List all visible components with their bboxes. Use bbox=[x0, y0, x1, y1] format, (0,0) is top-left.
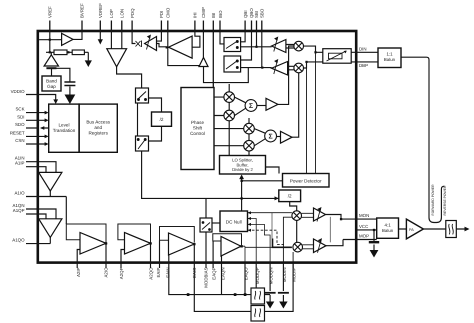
line to power detector left bbox=[206, 181, 283, 218]
pin to PSC top bbox=[212, 31, 214, 88]
svg-text:Shift: Shift bbox=[193, 126, 203, 131]
var amp arrows bbox=[147, 35, 322, 253]
var amp1 to mixer5 pair bbox=[286, 45, 294, 49]
svg-text:SBI: SBI bbox=[254, 11, 259, 18]
svg-text:A1QO: A1QO bbox=[12, 238, 25, 243]
mixer M4 phase quad bbox=[244, 140, 255, 151]
A1 amp Q input hooks bbox=[26, 209, 56, 219]
svg-text:IBO: IBO bbox=[218, 10, 223, 18]
switch SW1 blade and contacts bbox=[226, 41, 238, 49]
resistor R1 bbox=[54, 50, 67, 55]
mixer M5 feedback I bbox=[294, 41, 304, 51]
LO amp apex to switch A bbox=[117, 67, 142, 88]
CMO pin vertical and link to up-amp bbox=[168, 31, 200, 66]
svg-text:Control: Control bbox=[190, 131, 205, 136]
LOP LON to LO amp bbox=[111, 31, 121, 49]
DC null edge arrows bbox=[248, 211, 251, 232]
svg-text:VCC: VCC bbox=[359, 224, 368, 229]
mixer M1 phase quad bbox=[224, 92, 235, 103]
bandgap box link bbox=[51, 69, 53, 76]
bandgap cap branch bbox=[57, 68, 70, 95]
junction VREF resistor tap bbox=[49, 51, 51, 53]
junction EA Q amp output bbox=[240, 245, 242, 247]
mixer M3 phase quad bbox=[244, 123, 255, 134]
VREF buffer amp output to BVREF bbox=[73, 31, 82, 39]
VDREF down arrow bbox=[98, 39, 103, 44]
junction A2 Q amp output bbox=[149, 242, 151, 244]
band gap box bbox=[42, 76, 61, 91]
ferrite box1 bbox=[251, 288, 265, 304]
svg-text:EAQO: EAQO bbox=[244, 267, 249, 280]
svg-text:MOP: MOP bbox=[359, 234, 369, 239]
amplifier triangles bbox=[39, 33, 424, 252]
PDQ pin to det symbol bbox=[132, 31, 135, 44]
switch mid to DC null bbox=[212, 222, 220, 224]
CSN arrow bbox=[45, 142, 49, 146]
output amps to MON VCC MOP bbox=[326, 215, 377, 246]
DC null line1 to I mixer bbox=[248, 212, 292, 214]
svg-text:Balun: Balun bbox=[382, 228, 394, 233]
svg-text:LON: LON bbox=[120, 9, 125, 18]
svg-text:REVERSE POWER: REVERSE POWER bbox=[443, 185, 447, 216]
VCC decoupling cap bbox=[373, 230, 375, 251]
LO splitter buffer divide box bbox=[220, 156, 266, 175]
thin observation loop vertical bbox=[329, 217, 331, 243]
DC null line3 to MODQN pin bbox=[248, 224, 271, 262]
bandgap amp apex link bbox=[50, 52, 52, 55]
svg-text:SDO: SDO bbox=[15, 122, 25, 127]
EAIN external line bbox=[169, 263, 251, 295]
junction external filter node A bbox=[187, 293, 190, 296]
top pin stubs bbox=[50, 21, 262, 32]
CMIP pin to up-amp apex bbox=[202, 31, 204, 58]
A1QO output bbox=[26, 237, 50, 243]
switchbox2 out to var amp 2 bbox=[241, 31, 272, 68]
var amp feedback 1 (left) bbox=[272, 40, 286, 53]
output var amp I bbox=[314, 208, 326, 221]
svg-text:EAIO: EAIO bbox=[192, 267, 197, 278]
svg-text:Balun: Balun bbox=[384, 57, 396, 62]
amp6 out to mixer6 LO bbox=[292, 73, 299, 137]
pin to switchbox1 bbox=[220, 31, 224, 44]
svg-text:RESET: RESET bbox=[10, 130, 25, 135]
junction LO distribution node bbox=[241, 197, 243, 199]
svg-text:EAQP: EAQP bbox=[212, 267, 217, 279]
PSC outputs to quad mixers bbox=[214, 97, 244, 146]
MODQN bypass cap bbox=[269, 263, 271, 303]
svg-text:A2IO: A2IO bbox=[104, 267, 109, 278]
VREF net top-left bbox=[39, 31, 88, 52]
svg-text:Level: Level bbox=[59, 123, 70, 128]
svg-text:A2IP: A2IP bbox=[76, 267, 81, 277]
mixer5 branch down to power detector bbox=[315, 52, 317, 173]
cap plates bbox=[64, 82, 75, 86]
pin labels right bbox=[359, 46, 369, 238]
svg-text:IBI: IBI bbox=[211, 13, 216, 18]
DC null line2 to MODQP pin bbox=[248, 219, 257, 263]
amp4 output to EAQO pin and Q mixer bbox=[241, 246, 273, 262]
VREF buffer amp bbox=[62, 33, 73, 45]
gnd big below cap bbox=[65, 95, 76, 105]
attenuator to mixers diff lines bbox=[304, 46, 323, 68]
svg-text:Gap: Gap bbox=[47, 84, 56, 89]
junction EA I amp output bbox=[193, 243, 195, 245]
sigma2 to amp6 bbox=[277, 136, 281, 138]
resistor R2 bbox=[72, 50, 84, 55]
svg-text:Band: Band bbox=[46, 79, 57, 84]
gain arrow on output amp I bbox=[317, 208, 321, 222]
SCK arrow bbox=[45, 111, 49, 115]
svg-text:A1IP: A1IP bbox=[15, 161, 25, 166]
switch A to /2 to switch B bbox=[149, 98, 162, 141]
svg-text:CMO: CMO bbox=[166, 7, 171, 18]
svg-text:PDI: PDI bbox=[159, 11, 164, 18]
bandgap amp (up) bbox=[44, 55, 58, 66]
PA amp bbox=[406, 219, 423, 239]
IHI pin to big left amp input bbox=[192, 31, 200, 47]
svg-text:Translation: Translation bbox=[53, 128, 76, 133]
switchbox1 out up to pin bbox=[241, 31, 246, 42]
MODQN cap gnd bbox=[266, 302, 274, 309]
svg-text:PA: PA bbox=[409, 228, 414, 232]
var amp2 to mixer6 pair bbox=[288, 66, 294, 70]
svg-text:MON: MON bbox=[359, 213, 369, 218]
big left amp out to CMO vertical and small var amp bbox=[157, 44, 169, 48]
VDREF arrow line bbox=[99, 31, 101, 40]
DC null line4 dashed bbox=[248, 230, 285, 244]
svg-text:DIN: DIN bbox=[359, 46, 367, 51]
switch A to B direct line bbox=[137, 103, 139, 136]
MODIP pin line bbox=[292, 252, 294, 263]
LO splitter right to PD top bbox=[266, 167, 280, 174]
switch SW5 blade and contacts bbox=[202, 222, 210, 231]
gain arrow on PD var amp bbox=[147, 35, 151, 49]
ferrite1 to MODQN cap node bbox=[265, 263, 294, 312]
left pins SPI bbox=[26, 95, 56, 145]
switch B bbox=[136, 136, 149, 151]
pin hook to switchbox2 bbox=[241, 31, 252, 60]
A1 Q amp (down) bbox=[39, 219, 62, 238]
bottom pin stubs bbox=[77, 243, 293, 294]
1:1 balun box (external) bbox=[378, 48, 401, 68]
up-amp base hook to feedback line bbox=[204, 67, 249, 83]
divider /2 box left bbox=[152, 112, 172, 126]
junction DIP tap bbox=[305, 61, 307, 63]
svg-text:MODQN: MODQN bbox=[269, 268, 274, 285]
svg-text:CMIP: CMIP bbox=[201, 7, 206, 18]
svg-text:LOP: LOP bbox=[109, 9, 114, 18]
thick L into Q mixer bbox=[273, 239, 292, 248]
switch SW4 blade and contacts bbox=[137, 139, 146, 150]
divider /2 box right bbox=[279, 190, 301, 202]
svg-text:Power Detector: Power Detector bbox=[290, 179, 322, 184]
PD det symbol at tip of small var amp bbox=[136, 41, 142, 48]
svg-text:Bus Access: Bus Access bbox=[86, 120, 110, 125]
junction A2 I amp output bbox=[105, 242, 107, 244]
RF output arrow bbox=[465, 227, 470, 232]
svg-text:and: and bbox=[94, 125, 102, 130]
svg-text:/2: /2 bbox=[160, 117, 164, 122]
svg-text:VREF: VREF bbox=[48, 6, 53, 18]
LO splitter top stubs to quad mixers bbox=[229, 84, 249, 156]
VDDIO down arrow bbox=[53, 99, 58, 104]
svg-text:QBI: QBI bbox=[243, 10, 248, 18]
summer S1 bbox=[245, 100, 257, 112]
svg-text:VDREF: VDREF bbox=[98, 3, 103, 18]
junction VREF buffer input bbox=[49, 39, 51, 41]
svg-text:EAIP: EAIP bbox=[156, 267, 161, 277]
4:1 balun box (external) bbox=[377, 218, 399, 238]
svg-text:BVREF: BVREF bbox=[80, 3, 85, 18]
svg-text:/2: /2 bbox=[288, 194, 292, 199]
junction power detector feed bbox=[241, 180, 243, 182]
svg-text:MODIP: MODIP bbox=[292, 267, 297, 281]
PDI pin hook bbox=[157, 31, 162, 41]
box texts bbox=[46, 52, 396, 233]
gain arrow on output amp Q bbox=[318, 239, 322, 253]
svg-text:SCK: SCK bbox=[15, 107, 24, 112]
A1IO output bbox=[26, 191, 66, 224]
svg-text:Σ: Σ bbox=[268, 134, 272, 141]
svg-text:EAIN: EAIN bbox=[165, 268, 170, 278]
sigma2 post amp bbox=[281, 131, 293, 143]
switchbox1 lower out to var amp 1 bbox=[241, 31, 272, 47]
SDO arrow (left) bbox=[40, 126, 44, 130]
svg-text:Divide by 2: Divide by 2 bbox=[232, 167, 253, 172]
LO splitter feed arrow bbox=[241, 176, 243, 212]
svg-text:EAQN: EAQN bbox=[221, 268, 226, 280]
phase shift control box bbox=[181, 88, 214, 170]
svg-text:1:1: 1:1 bbox=[386, 52, 393, 57]
mixer7 to out amp pair bbox=[302, 213, 314, 217]
arrows (filled) bbox=[40, 39, 469, 308]
svg-text:MODIN: MODIN bbox=[282, 268, 287, 283]
mixer M7 modulator I bbox=[292, 211, 302, 221]
svg-text:A1QP: A1QP bbox=[13, 208, 25, 213]
coupler box (external) bbox=[446, 221, 457, 238]
switch box top 2 bbox=[224, 56, 241, 72]
small var amp left (PD path) bbox=[145, 37, 157, 51]
DIN DIP lines bbox=[351, 52, 378, 62]
svg-text:4:1: 4:1 bbox=[385, 223, 392, 228]
svg-text:DBP: DBP bbox=[359, 63, 368, 68]
svg-text:Σ: Σ bbox=[249, 103, 253, 110]
junction external filter node B bbox=[234, 293, 237, 296]
mixer7 to mixer8 chain bbox=[296, 220, 298, 242]
VCC cap gnd bbox=[370, 250, 379, 258]
svg-text:VDDIO: VDDIO bbox=[11, 89, 25, 94]
switch A bbox=[136, 88, 149, 103]
svg-text:SDI: SDI bbox=[17, 114, 24, 119]
switch mid bottom to MODBIAS pin bbox=[205, 232, 207, 268]
svg-text:Phase: Phase bbox=[191, 120, 204, 125]
mixer6 branch down to power detector bbox=[306, 62, 308, 174]
RESET arrow bbox=[45, 135, 49, 139]
summer S2 bbox=[265, 130, 277, 142]
DC null box bbox=[220, 211, 248, 232]
svg-text:A2QO: A2QO bbox=[148, 267, 153, 280]
power detector box bbox=[283, 174, 330, 188]
output var amp Q bbox=[314, 239, 327, 253]
ferrite box2 bbox=[251, 306, 265, 322]
MODIN cap gnd bbox=[279, 302, 287, 309]
gnd stub after resistors bbox=[87, 52, 89, 60]
switch box top 1 bbox=[224, 38, 241, 52]
svg-text:MODQP: MODQP bbox=[255, 267, 260, 284]
switch SW2 blade and contacts bbox=[226, 60, 238, 69]
EAIO external line bbox=[194, 244, 251, 311]
sigma1 post amp bbox=[266, 98, 278, 110]
switch SW3 blade and contacts bbox=[138, 92, 147, 101]
junction between resistors bbox=[67, 51, 69, 53]
big left amp bbox=[169, 36, 193, 58]
amp5 out to mixer5 LO bbox=[278, 46, 294, 104]
A1 amp I input hooks bbox=[26, 162, 56, 173]
mixer M6 feedback Q bbox=[294, 63, 304, 73]
balun to coupler U line bbox=[401, 57, 444, 222]
coupler tap labels bbox=[431, 184, 447, 216]
pin labels top (rotated) bbox=[48, 3, 265, 18]
/2 input arrow bbox=[275, 196, 279, 200]
junction switch out I bbox=[255, 46, 257, 48]
svg-text:A2QP: A2QP bbox=[119, 267, 124, 279]
svg-text:DC Null: DC Null bbox=[226, 219, 242, 224]
variable attenuator box bbox=[323, 49, 351, 64]
junction LO buffer output node bbox=[166, 46, 168, 48]
switch mid (modbias) bbox=[200, 218, 212, 232]
bottom op amps with feedback loops bbox=[66, 224, 241, 245]
switch boxes bbox=[136, 38, 241, 233]
svg-text:A1IO: A1IO bbox=[14, 191, 25, 196]
junction VCC tap bbox=[373, 229, 375, 231]
quad mixers to sigma1 bbox=[235, 97, 246, 115]
LO input amp (down) bbox=[107, 49, 127, 67]
MODIN pin line up to I mixer lower input bbox=[283, 217, 292, 262]
svg-text:MODBIAS: MODBIAS bbox=[204, 267, 209, 287]
sigma1 to amp5 bbox=[257, 105, 266, 107]
/2 right bottom to mixer7 bbox=[290, 202, 297, 211]
gnd small after resistors bbox=[85, 60, 92, 67]
svg-text:CSN: CSN bbox=[15, 138, 24, 143]
MODIN bypass cap bbox=[282, 263, 284, 303]
up amp to CMIP bbox=[199, 58, 208, 67]
chip outline bbox=[38, 31, 356, 263]
bus access and registers box bbox=[79, 104, 117, 152]
junction DIN tap bbox=[314, 51, 316, 53]
svg-text:PDQ: PDQ bbox=[130, 8, 135, 18]
mixer M2 phase quad bbox=[224, 110, 235, 121]
svg-text:SBO: SBO bbox=[260, 8, 265, 18]
svg-text:FORWARD POWER: FORWARD POWER bbox=[431, 184, 435, 216]
pin labels bottom (rotated) bbox=[76, 267, 297, 288]
svg-text:IHI: IHI bbox=[193, 12, 198, 18]
LO splitter up arrow bbox=[239, 175, 244, 180]
gain arrow on feedback var amp I bbox=[274, 37, 278, 51]
junction switch out Q bbox=[261, 67, 263, 69]
junction MON node bbox=[340, 218, 342, 220]
var amp feedback 2 (left) bbox=[272, 62, 288, 76]
junction EAQO filter tap bbox=[244, 293, 247, 296]
gain arrow on feedback var amp Q bbox=[274, 60, 278, 74]
PA input / output bbox=[398, 228, 467, 230]
mixer8 to out amp pair bbox=[303, 245, 314, 249]
level translation box bbox=[49, 104, 79, 152]
mixer M8 modulator Q bbox=[293, 242, 303, 252]
A1 I amp (down) bbox=[39, 172, 62, 191]
pin labels left bbox=[10, 89, 25, 243]
SDI arrow bbox=[45, 118, 49, 122]
svg-text:Registers: Registers bbox=[88, 131, 108, 136]
quad mixers to sigma2 bbox=[254, 129, 265, 146]
switch B down and LO distribution line bbox=[142, 151, 279, 198]
